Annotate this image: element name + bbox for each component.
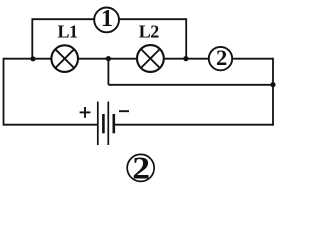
- wire top-branch left vertical drop: [31, 18, 33, 58]
- node junction dot between L1 and L2: [106, 56, 111, 61]
- label + (battery positive): [80, 107, 91, 118]
- ammeter 1 (meter circle with digit 1): [94, 6, 119, 32]
- label - (battery negative): [119, 110, 129, 112]
- wire middle branch: L1 to L2: [79, 58, 137, 60]
- ammeter 2 (meter circle with digit 2): [209, 45, 232, 70]
- wire top-branch right vertical drop: [185, 18, 187, 58]
- node junction dot on right wire: [270, 82, 275, 87]
- wire lower middle horizontal: [108, 84, 273, 86]
- svg-text:2: 2: [132, 151, 150, 185]
- svg-text:L2: L2: [139, 22, 160, 42]
- node junction dot at top-left drop: [30, 56, 35, 61]
- wire middle branch: meter 2 to right wire: [232, 58, 273, 60]
- svg-text:1: 1: [101, 6, 113, 32]
- wire top branch left segment: [32, 18, 94, 20]
- wire bottom right segment: [114, 124, 274, 126]
- figure label circled 2: [127, 151, 154, 186]
- wire bottom left segment: [4, 124, 98, 126]
- svg-text:2: 2: [216, 45, 227, 70]
- wire middle branch: left wire to L1: [4, 58, 52, 60]
- lamp L1 (circle with X): [51, 45, 78, 72]
- wire right side vertical: [272, 58, 274, 126]
- wire middle branch: L2 to meter 2: [164, 58, 208, 60]
- wire left side vertical: [3, 58, 5, 126]
- wire vertical drop from junction between L1 and L2: [107, 59, 109, 85]
- wire top branch right segment: [119, 18, 186, 20]
- battery (two cells): [98, 102, 114, 146]
- svg-text:L1: L1: [58, 22, 79, 42]
- lamp L2 (circle with X): [137, 45, 164, 72]
- node junction dot after L2: [183, 56, 188, 61]
